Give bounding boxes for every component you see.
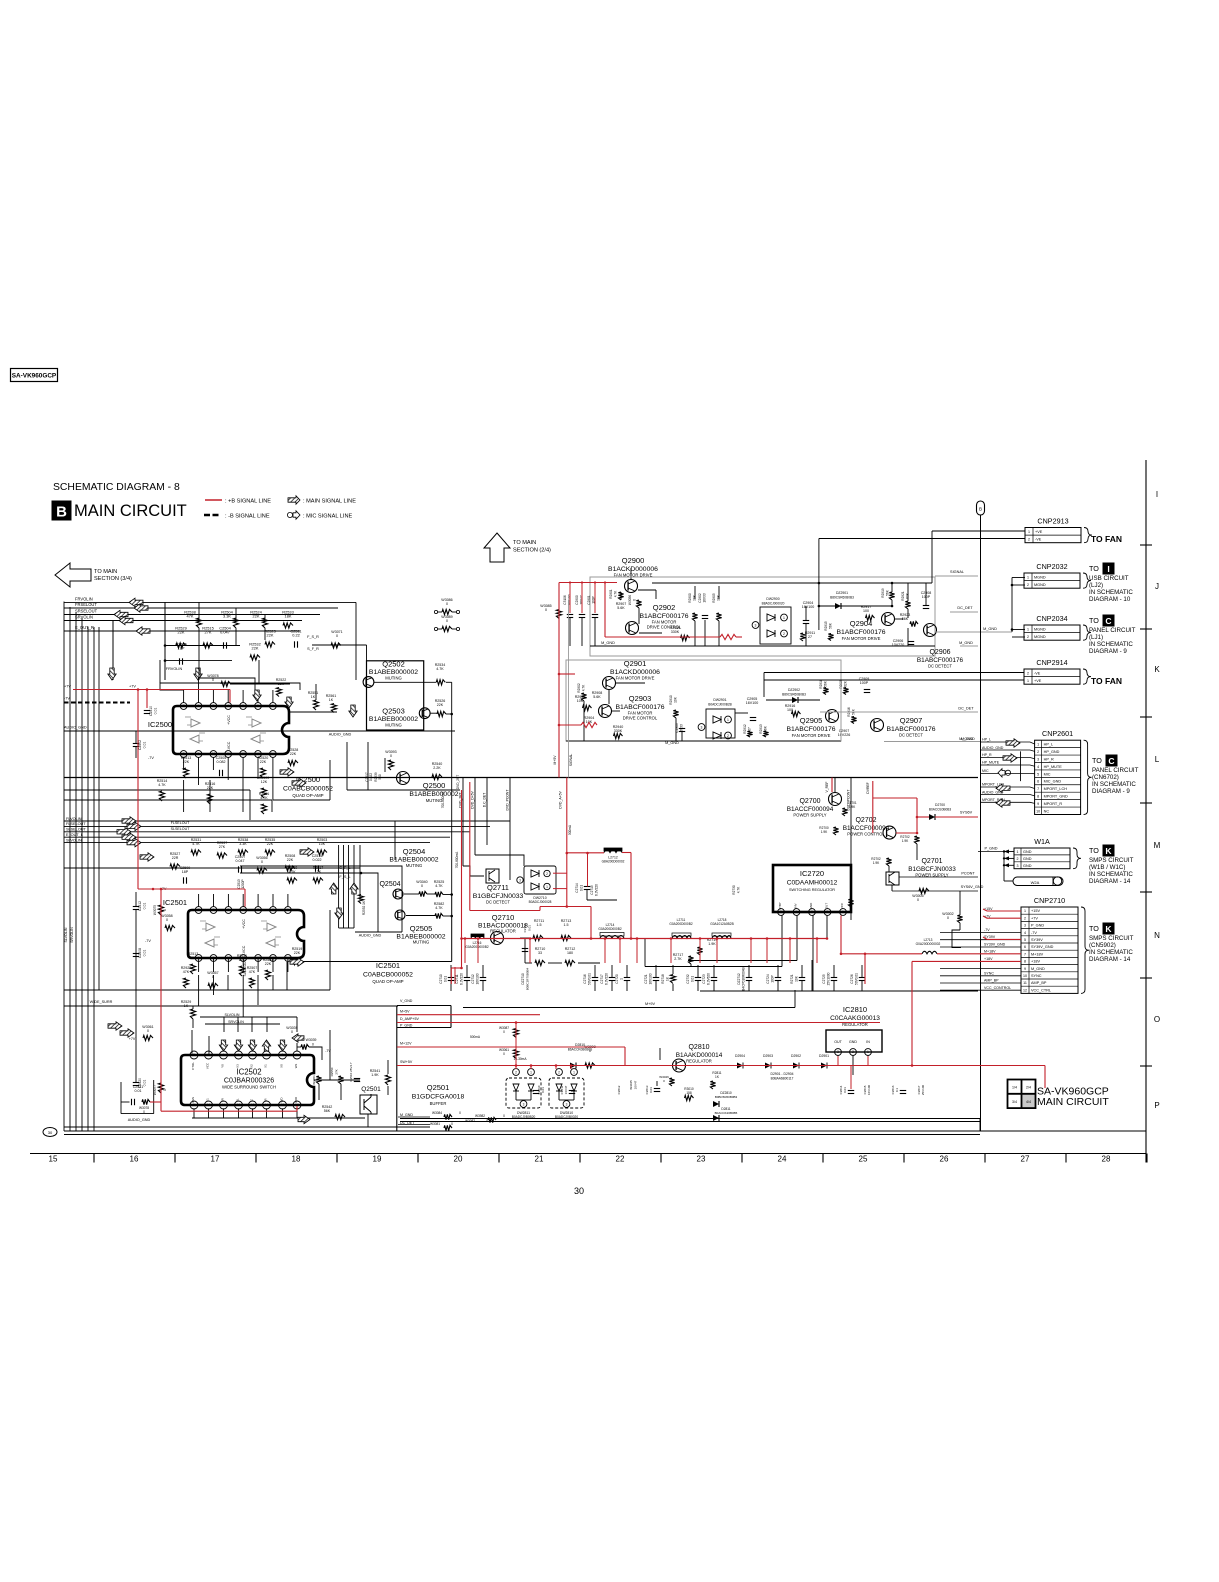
svg-text:0.047: 0.047: [236, 859, 245, 863]
svg-text:HP_GND: HP_GND: [1044, 750, 1060, 754]
svg-text:25: 25: [859, 1155, 868, 1164]
diode pack DW2900: [760, 607, 791, 644]
transistor Q2701 symbol: [886, 872, 899, 885]
svg-text:3: 3: [837, 1050, 839, 1054]
svg-text:FAN MOTOR DRIVE: FAN MOTOR DRIVE: [842, 636, 881, 641]
svg-text:16V100: 16V100: [476, 973, 480, 984]
svg-text:DIAGRAM - 10: DIAGRAM - 10: [1089, 596, 1131, 603]
signal arrow: [290, 958, 304, 966]
wire SLVOLIN: [64, 842, 430, 844]
svg-text:E_OUT_L: E_OUT_L: [66, 833, 83, 837]
svg-text:2: 2: [783, 632, 785, 636]
svg-text:SY39V_GND: SY39V_GND: [984, 942, 1006, 946]
IC2502 pin 5: [235, 1051, 243, 1059]
svg-text:B4CP016R004B: B4CP016R004B: [742, 967, 746, 990]
wire CNP2914 -VE: [764, 672, 1024, 674]
svg-text:3: 3: [519, 878, 521, 882]
svg-text:300mA: 300mA: [568, 824, 572, 835]
wire to DW2710: [475, 855, 524, 866]
legend +B signal line: [205, 499, 222, 501]
svg-text:POWER SUPPLY: POWER SUPPLY: [793, 813, 826, 818]
svg-text:330K: 330K: [671, 630, 680, 634]
svg-text:W3045: W3045: [629, 1080, 633, 1090]
IC2500 pin 10: [210, 751, 217, 758]
svg-text:D2902: D2902: [791, 1054, 801, 1058]
wire SRVOLIN: [64, 620, 302, 622]
svg-text:M_GND: M_GND: [983, 627, 997, 631]
IC2500 pin 2: [255, 703, 262, 710]
svg-text:22K: 22K: [294, 951, 301, 955]
svg-text:TO: TO: [1089, 924, 1099, 933]
svg-text:10K: 10K: [795, 975, 799, 982]
fan drive box lower: [566, 660, 841, 741]
wires into W1A: [1004, 851, 1014, 853]
signal arrow: [996, 799, 1010, 807]
IC2502 bottom pin wires: [193, 1108, 195, 1118]
brace CNP2032: [1083, 573, 1091, 588]
red wire down to SW5V: [911, 961, 913, 1065]
wire: [315, 684, 317, 700]
wire MGND link CNP2032-CNP2034: [1011, 578, 1013, 633]
signal arrow: [108, 1022, 122, 1030]
svg-text:1: 1: [573, 1070, 575, 1074]
svg-text:3: 3: [523, 1102, 525, 1106]
transistor Q2901: [603, 677, 616, 690]
svg-text:1200P: 1200P: [241, 879, 245, 888]
svg-text:B1GDCFGA0018: B1GDCFGA0018: [412, 1094, 465, 1101]
svg-text:C2901: C2901: [587, 595, 591, 605]
svg-text:0: 0: [166, 918, 168, 922]
svg-text:W3056: W3056: [628, 595, 632, 605]
inductor L2712: [604, 850, 622, 853]
svg-text:SRVOLIN: SRVOLIN: [75, 615, 93, 620]
svg-text:Q2700: Q2700: [799, 798, 820, 805]
svg-text:PANEL CIRCUIT: PANEL CIRCUIT: [1092, 767, 1139, 774]
svg-text:3: 3: [1037, 757, 1039, 761]
red wire DVD_A+5V lower: [567, 906, 591, 908]
svg-text:22K: 22K: [287, 858, 294, 862]
svg-text:CNP2913: CNP2913: [1037, 517, 1068, 526]
svg-text:FAN MOTOR DRIVE: FAN MOTOR DRIVE: [792, 733, 831, 738]
svg-text:47K: 47K: [183, 970, 190, 974]
svg-text:VSS: VSS: [191, 1097, 195, 1103]
svg-text:2: 2: [515, 1070, 517, 1074]
svg-text:C2900: C2900: [575, 595, 579, 605]
red wire SY39V row: [983, 937, 1021, 939]
svg-text:+VCC: +VCC: [227, 715, 231, 725]
svg-text:INV: INV: [794, 903, 798, 908]
svg-text:3: 3: [811, 910, 813, 914]
IC2502 pin 7: [205, 1051, 213, 1059]
IC2501 pin 12: [255, 955, 262, 962]
signal arrow: [140, 853, 154, 861]
svg-text:C2715: C2715: [590, 885, 594, 895]
svg-text:DC_DET: DC_DET: [957, 606, 973, 610]
wires right of IC2502: [314, 1079, 360, 1081]
svg-text:5.6K: 5.6K: [617, 606, 625, 610]
border tick: [1140, 977, 1152, 979]
svg-text:W3075: W3075: [153, 905, 157, 915]
svg-text:VCC_CONTROL: VCC_CONTROL: [984, 986, 1011, 990]
wire: [227, 770, 229, 780]
svg-text:DZ2902: DZ2902: [788, 688, 800, 692]
IC2501 pin 7: [195, 907, 202, 914]
wire x136 chain: [135, 892, 137, 907]
svg-text:1: 1: [1027, 575, 1029, 579]
svg-text:R2900: R2900: [688, 593, 692, 603]
svg-text:DZ2712: DZ2712: [737, 973, 741, 985]
svg-text:1: 1: [727, 718, 729, 722]
svg-text:4: 4: [227, 704, 229, 708]
svg-text:0.01: 0.01: [143, 950, 147, 957]
svg-text:IC2500: IC2500: [148, 720, 172, 729]
svg-text:10V220: 10V220: [892, 643, 904, 647]
red wire M+5V row: [397, 1014, 540, 1016]
signal arrow: [1006, 739, 1020, 747]
svg-text:DIAGRAM - 14: DIAGRAM - 14: [1089, 878, 1131, 885]
svg-text:56K: 56K: [828, 622, 832, 629]
svg-text:Y0: Y0: [221, 1064, 225, 1068]
svg-text:FLSELOUT: FLSELOUT: [171, 821, 190, 825]
label box SA-VK960GCP: [11, 369, 58, 382]
svg-text:47K: 47K: [249, 970, 256, 974]
svg-text:B8ADCJ000020: B8ADCJ000020: [762, 601, 785, 605]
svg-text:MUTING: MUTING: [426, 798, 443, 803]
svg-text:21: 21: [535, 1155, 544, 1164]
brace CNP2034: [1083, 625, 1091, 640]
svg-text:GND: GND: [1023, 850, 1032, 854]
red wire vertical x147: [146, 690, 148, 709]
svg-text:56K: 56K: [885, 589, 889, 596]
brace CNP2601: [1084, 740, 1092, 814]
svg-text:0.01: 0.01: [528, 925, 532, 931]
svg-text:0: 0: [917, 898, 919, 902]
svg-text:M+5V: M+5V: [553, 755, 557, 765]
svg-text:0.022: 0.022: [369, 773, 373, 781]
svg-text:B89CSR60B0B3: B89CSR60B0B3: [782, 692, 806, 696]
svg-text:10: 10: [1036, 809, 1040, 813]
ruler tick: [984, 1154, 986, 1163]
svg-text:10V226: 10V226: [838, 733, 850, 737]
svg-text:1.9K: 1.9K: [708, 942, 716, 946]
IC2500 pin 13: [255, 751, 262, 758]
svg-text:26: 26: [940, 1155, 949, 1164]
svg-text:C: C: [1105, 616, 1111, 626]
IC2501 pin wires: [198, 894, 200, 907]
svg-text:QUAD OP-AMP: QUAD OP-AMP: [372, 979, 403, 984]
svg-text:Q2903: Q2903: [629, 694, 652, 703]
svg-text:22K: 22K: [267, 633, 274, 638]
svg-text:WIDE_SURR: WIDE_SURR: [90, 1000, 113, 1004]
svg-text:OUT: OUT: [834, 1040, 842, 1044]
red stub C2714: [587, 853, 589, 887]
svg-text:TO: TO: [1089, 846, 1099, 855]
svg-text:1.5: 1.5: [537, 923, 542, 927]
svg-text:7: 7: [1024, 952, 1026, 956]
svg-text:AUDIO_GND: AUDIO_GND: [359, 934, 382, 938]
svg-text:W1: W1: [294, 1063, 298, 1068]
svg-text:1: 1: [783, 616, 785, 620]
red wire vertical x605: [604, 583, 606, 638]
svg-text:N: N: [1154, 931, 1160, 940]
svg-text:0: 0: [336, 634, 338, 638]
wires Q2504 row: [404, 893, 419, 895]
svg-text:30: 30: [574, 1186, 584, 1196]
svg-text:22K: 22K: [178, 630, 185, 635]
svg-text:USB CIRCUIT: USB CIRCUIT: [1089, 575, 1129, 582]
svg-text:700-800mA: 700-800mA: [441, 791, 445, 808]
svg-text:30: 30: [48, 1130, 53, 1135]
svg-text:MPORT_GND: MPORT_GND: [1044, 795, 1068, 799]
svg-text:6.3V220: 6.3V220: [605, 973, 609, 985]
svg-text:X0: X0: [280, 1064, 284, 1068]
svg-text:16V100: 16V100: [746, 701, 758, 705]
svg-text:8: 8: [1037, 795, 1039, 799]
svg-text:R2913: R2913: [759, 724, 763, 734]
svg-text:B1ABCF000176: B1ABCF000176: [786, 726, 835, 733]
IC2502 pin 16: [293, 1101, 301, 1109]
svg-text:L: L: [1155, 755, 1160, 764]
capacitor C2713 symbol: [522, 948, 528, 950]
svg-text:K: K: [1105, 846, 1112, 856]
svg-text:500mA: 500mA: [470, 1035, 481, 1039]
wire DVD_PCONT to IC2720: [850, 895, 852, 920]
wire SLSELOUT: [64, 831, 470, 833]
svg-text:12: 12: [241, 752, 245, 756]
IC2502 pin 3: [263, 1051, 271, 1059]
red wire to right caps: [912, 1065, 1045, 1067]
svg-text:C0JBAR000326: C0JBAR000326: [224, 1078, 274, 1085]
svg-text:SLVOLIN: SLVOLIN: [64, 927, 68, 942]
wire: [271, 800, 273, 812]
wire FLSELOUT: [64, 825, 490, 827]
signal arrow: [1003, 754, 1017, 762]
svg-text:5: 5: [212, 704, 214, 708]
svg-text:4: 4: [252, 1053, 254, 1057]
svg-text:R2730: R2730: [732, 885, 736, 895]
svg-text:MAIN CIRCUIT: MAIN CIRCUIT: [74, 502, 187, 520]
svg-text:SECTION (2/4): SECTION (2/4): [513, 548, 551, 554]
IC2501 pin 9: [210, 955, 217, 962]
wire to Q2711: [463, 866, 484, 876]
wires cluster D: [64, 867, 360, 869]
svg-text:4.7K: 4.7K: [436, 667, 444, 671]
svg-text:C0CAAKG00013: C0CAAKG00013: [830, 1015, 880, 1022]
svg-text:PCONT: PCONT: [961, 872, 975, 876]
svg-text:C3106: C3106: [563, 595, 567, 605]
svg-text:G0A200D000B2: G0A200D000B2: [669, 922, 692, 926]
svg-text:1K: 1K: [184, 1004, 189, 1008]
red rail branches down: [464, 939, 466, 964]
svg-text:16V100: 16V100: [867, 1084, 871, 1095]
svg-text:330K: 330K: [614, 729, 623, 733]
svg-text:2: 2: [827, 910, 829, 914]
svg-text:6: 6: [213, 908, 215, 912]
jumper pill W2A: [1013, 877, 1063, 886]
svg-text:DRIVE CONTROL: DRIVE CONTROL: [623, 716, 658, 721]
svg-text:1K: 1K: [329, 698, 334, 702]
mic signal arrow: [998, 769, 1011, 777]
IC2502 pin 4: [249, 1051, 257, 1059]
svg-text:G0A200D000B2: G0A200D000B2: [465, 945, 488, 949]
svg-text:+18V: +18V: [984, 957, 993, 961]
ruler tick: [498, 1154, 500, 1163]
svg-text:C2713: C2713: [523, 923, 527, 932]
svg-text:VCC_CTRL: VCC_CTRL: [1031, 988, 1051, 992]
diode pack DW2710: [524, 866, 556, 894]
svg-text:1.5: 1.5: [564, 923, 569, 927]
svg-text:V_REF: V_REF: [825, 782, 829, 793]
wire main divider M+5V line: [64, 777, 978, 779]
svg-text:3: 3: [266, 1053, 268, 1057]
svg-text:SECTION (3/4): SECTION (3/4): [94, 576, 132, 582]
signal arrow down: [219, 1040, 227, 1051]
wire: [273, 799, 330, 801]
svg-text:22K: 22K: [267, 842, 274, 846]
svg-text:2/4: 2/4: [1026, 1086, 1031, 1090]
svg-text:9: 9: [198, 752, 200, 756]
wire vertical x165: [164, 602, 166, 680]
red wire rail end at OUT pin: [826, 937, 829, 940]
svg-text:W3061: W3061: [312, 1075, 316, 1085]
ruler tick: [822, 1154, 824, 1163]
svg-text:10K: 10K: [692, 594, 696, 601]
svg-text:5: 5: [1037, 772, 1039, 776]
svg-text:0: 0: [947, 916, 949, 920]
wires above IC2500: [160, 683, 300, 690]
svg-text:IN: IN: [866, 1040, 870, 1044]
IC2501 pin 1: [285, 907, 292, 914]
svg-text:0: 0: [390, 754, 392, 758]
svg-text:0: 0: [147, 1029, 149, 1033]
svg-text:19: 19: [373, 1155, 382, 1164]
red wire fan row2: [559, 673, 575, 675]
wire: [272, 770, 274, 800]
svg-text:MAIN CIRCUIT: MAIN CIRCUIT: [1037, 1096, 1109, 1108]
IC2500 pin 3: [240, 703, 247, 710]
svg-text:0: 0: [312, 1043, 314, 1047]
svg-text:GND: GND: [1023, 864, 1032, 868]
main signal arrow: [114, 610, 128, 618]
red wire Q2711 loop: [469, 782, 471, 911]
wire E_OUT_L: [64, 836, 450, 838]
svg-text:S_F_R: S_F_R: [307, 647, 319, 651]
svg-text:B: B: [56, 504, 67, 521]
red wire: [916, 798, 918, 833]
ruler tick: [1065, 1154, 1067, 1163]
signal arrow: [292, 779, 306, 787]
svg-text:3.3K: 3.3K: [223, 614, 231, 619]
signal arrow down: [278, 1040, 286, 1051]
svg-text:SY39V: SY39V: [1031, 938, 1043, 942]
svg-text:MPORT_R: MPORT_R: [1044, 802, 1063, 806]
wire -7V dashed: [64, 702, 130, 704]
svg-text:P_GND: P_GND: [984, 847, 997, 851]
wires into CNP2710 black: [940, 932, 1021, 934]
red wire D_AMP+5V: [397, 1022, 880, 1024]
svg-text:MUTING: MUTING: [385, 676, 402, 681]
svg-text:17: 17: [211, 1155, 220, 1164]
svg-text:4.7K: 4.7K: [613, 590, 617, 597]
regulator IC2720 outline: [773, 865, 851, 912]
svg-text:27K: 27K: [219, 845, 226, 849]
diode pack DW2901: [706, 709, 735, 738]
svg-text:Q2501: Q2501: [427, 1083, 450, 1092]
svg-text:B0ACCE0B0B3: B0ACCE0B0B3: [929, 807, 952, 811]
svg-text:1.9K: 1.9K: [849, 805, 856, 809]
svg-text:10K: 10K: [673, 696, 677, 703]
svg-text:IC2501: IC2501: [376, 961, 400, 970]
red wire W3087 branch: [515, 1023, 517, 1066]
red wires at diodes row: [700, 1065, 737, 1067]
wire: [289, 711, 337, 713]
IC2501 pin 3: [255, 907, 262, 914]
transistor Q2710: [491, 932, 504, 945]
svg-text:Q2904: Q2904: [850, 619, 873, 628]
wires into IC2502: [200, 1016, 297, 1018]
svg-text:C2724: C2724: [766, 974, 770, 984]
svg-text:W1A: W1A: [1034, 837, 1050, 846]
svg-text:27K: 27K: [335, 1069, 339, 1074]
svg-text:C2502: C2502: [138, 740, 142, 750]
svg-text:7: 7: [183, 704, 185, 708]
svg-text:C2812: C2812: [617, 1085, 621, 1094]
svg-text:F_S_R: F_S_R: [307, 635, 319, 639]
svg-text:1.9K: 1.9K: [873, 861, 880, 865]
svg-text:0.01: 0.01: [649, 1087, 653, 1093]
svg-text:MGND: MGND: [1034, 575, 1046, 579]
svg-text:M_GND: M_GND: [601, 641, 615, 645]
wire IC2720 gnd to bus: [700, 990, 978, 992]
svg-text:M_GND: M_GND: [961, 737, 975, 741]
svg-text:D2901 - D2904: D2901 - D2904: [771, 1072, 794, 1076]
svg-text:: -B SIGNAL LINE: : -B SIGNAL LINE: [225, 514, 270, 520]
svg-text:DC DETECT: DC DETECT: [899, 733, 923, 738]
svg-text:C2714: C2714: [575, 883, 579, 893]
svg-text:+7V: +7V: [1031, 916, 1038, 920]
svg-text:SMPS CIRCUIT: SMPS CIRCUIT: [1089, 857, 1134, 864]
op-amp IC2501 outline: [188, 910, 304, 958]
svg-text:33: 33: [538, 951, 542, 955]
red wire L2712 branch: [567, 852, 604, 854]
svg-text:27K: 27K: [190, 956, 197, 960]
svg-text:W3982: W3982: [475, 1114, 485, 1118]
svg-text:1: 1: [296, 1053, 298, 1057]
svg-text:3: 3: [1017, 864, 1019, 868]
svg-text:Q2906: Q2906: [929, 649, 950, 656]
red wire fan row1: [605, 636, 720, 638]
svg-text:24: 24: [778, 1155, 787, 1164]
ruler tick: [741, 1154, 743, 1163]
border tick: [1140, 1065, 1152, 1067]
IC2501 pin 14: [285, 955, 292, 962]
brace CNP2913: [1084, 528, 1092, 543]
svg-text:STBY: STBY: [778, 902, 782, 910]
svg-text:(CN6702): (CN6702): [1092, 774, 1119, 781]
svg-text:0.01: 0.01: [154, 708, 158, 715]
svg-text:C2510 25V4.7: C2510 25V4.7: [349, 1062, 353, 1082]
wire: [258, 660, 260, 684]
svg-text:MUTING: MUTING: [385, 723, 402, 728]
svg-text:DZ2710: DZ2710: [521, 973, 525, 985]
svg-text:100P: 100P: [771, 975, 775, 982]
red wire into CNP2710 +15V +7V: [983, 909, 1021, 911]
svg-text:DVD_D+5V: DVD_D+5V: [471, 790, 475, 808]
wire M_GND lower: [884, 741, 978, 743]
svg-text:D_AMP+5V: D_AMP+5V: [400, 1017, 419, 1021]
svg-text:22K: 22K: [437, 703, 444, 707]
svg-text:3: 3: [566, 1102, 568, 1106]
